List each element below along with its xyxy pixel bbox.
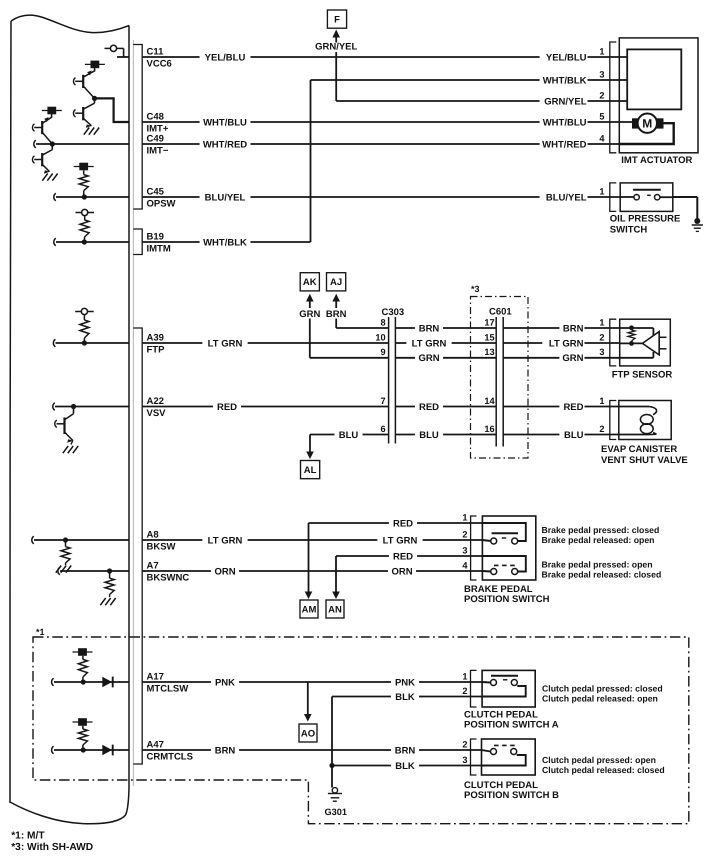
resistor OPSW pull-up (83, 170, 85, 174)
svg-text:EVAP CANISTER: EVAP CANISTER (601, 444, 677, 455)
svg-text:2: 2 (599, 424, 604, 434)
svg-text:1: 1 (599, 46, 604, 56)
svg-text:GRN: GRN (418, 353, 439, 364)
wire label WHT/BLU (right) (540, 116, 588, 128)
arrow up into AJ (332, 294, 340, 302)
svg-text:CRMTCLS: CRMTCLS (147, 752, 193, 763)
junction dot on A39 wire (82, 340, 87, 345)
clutch pedal position switch B box (482, 739, 536, 775)
svg-text:1: 1 (462, 512, 467, 522)
wire label BRN (right) (559, 322, 584, 334)
ground symbol G301 (332, 788, 337, 793)
svg-text:C303: C303 (382, 307, 405, 318)
svg-text:RED: RED (217, 402, 237, 413)
svg-text:AK: AK (303, 277, 317, 288)
wire label ORN (A7 left) (211, 565, 239, 577)
svg-text:Brake pedal released: open: Brake pedal released: open (542, 535, 655, 545)
svg-text:WHT/BLU: WHT/BLU (203, 117, 247, 128)
wire from oil pressure switch to ground (673, 196, 698, 198)
wire label RED (right) (559, 401, 584, 413)
component bracket clutch switch B (471, 739, 477, 775)
wire label YEL/BLU (left) (200, 51, 251, 63)
voltage circle for IMTM pull-up (82, 209, 88, 215)
wire RED C303 to C601 (395, 406, 496, 408)
wire label BRN (right) (391, 744, 419, 756)
hook at left end of A39 wire (53, 339, 55, 347)
transistor Q1a (upper, drives C48 node) (94, 68, 96, 72)
svg-text:BLU: BLU (419, 430, 439, 441)
svg-text:Clutch pedal pressed: open: Clutch pedal pressed: open (542, 755, 656, 765)
transistor Q1b (lower, to ground) (94, 98, 96, 103)
wire label PNK (right) (391, 676, 419, 688)
wire label WHT/BLU (left) (200, 116, 251, 128)
wire GRN from AK to C303 pin 9 (309, 319, 311, 358)
component bracket oil pressure switch (610, 183, 617, 212)
wire label ORN (brake pin4) (388, 565, 416, 577)
svg-text:M: M (642, 117, 652, 131)
wire BRN C601 to FTP sensor pin 1 (503, 327, 620, 329)
wire B19 inside ECM (56, 241, 129, 243)
svg-text:8: 8 (380, 317, 385, 327)
svg-text:AL: AL (304, 465, 317, 476)
svg-text:POSITION SWITCH A: POSITION SWITCH A (464, 720, 559, 731)
svg-text:BRN: BRN (215, 745, 236, 756)
hook at left end of A7 wire (58, 567, 60, 575)
ground symbol for oil pressure switch (692, 224, 703, 226)
resistor BKSWNC pulldown (109, 571, 111, 578)
svg-text:BLU: BLU (564, 430, 584, 441)
svg-text:GRN: GRN (299, 309, 320, 320)
junction dot on A8 wire (63, 537, 68, 542)
svg-text:FTP SENSOR: FTP SENSOR (612, 370, 673, 381)
wire ORN from A7 to brake switch pin 4 (142, 570, 482, 572)
wire A8 inside ECM (34, 539, 129, 541)
hook at left end of A8 wire (32, 536, 34, 544)
svg-text:WHT/RED: WHT/RED (203, 139, 247, 150)
arrow down into AL (309, 435, 311, 452)
svg-text:POSITION SWITCH B: POSITION SWITCH B (464, 790, 559, 801)
junction dot on A47 wire (81, 747, 86, 752)
wire LT GRN from A8 to brake switch pin 2 (142, 539, 482, 541)
svg-text:C45: C45 (147, 186, 165, 197)
hook at left end of C45 wire (54, 193, 56, 201)
svg-text:3: 3 (462, 755, 467, 765)
connector F box (327, 10, 346, 28)
oil pressure switch box (620, 183, 673, 212)
wire WHT/BLU from C48 to IMT actuator pin 5 (142, 121, 632, 123)
wire BRN from A47 to clutch switch B pin 2 (142, 749, 481, 751)
connector strip light guide line (132, 40, 134, 786)
ground wire down to G301 (331, 697, 333, 788)
wire C49 inside ECM (36, 143, 129, 145)
wire RED C601 to EVAP valve pin 1 (503, 406, 619, 408)
svg-text:C48: C48 (147, 111, 164, 122)
wire BLU C601 to EVAP valve pin 2 (503, 434, 619, 436)
wire RED from A22 to C303 pin 7 (142, 406, 388, 408)
svg-text:Clutch pedal released: closed: Clutch pedal released: closed (542, 765, 665, 775)
svg-text:*3: With SH-AWD: *3: With SH-AWD (11, 842, 93, 853)
ground for Q2b (42, 174, 47, 181)
arrow up into connector F (332, 30, 340, 38)
wire LT GRN C303 to C601 (395, 342, 496, 344)
svg-text:VENT SHUT VALVE: VENT SHUT VALVE (601, 455, 688, 466)
hook at left end of C49 wire (34, 140, 36, 148)
svg-text:LT GRN: LT GRN (412, 338, 447, 349)
junction dot on B19 wire (82, 239, 87, 244)
svg-text:ORN: ORN (391, 566, 412, 577)
IMT actuator wire pin4 internal (619, 123, 673, 144)
ground for Q3 (63, 446, 68, 453)
wire YEL/BLU from C11 to IMT actuator pin 1 (142, 56, 627, 58)
wire GRN/YEL from connector F to IMT actuator pin 2 (335, 52, 337, 101)
connector bracket group B (B19) (133, 229, 142, 255)
EVAP valve solenoid coil (619, 406, 649, 408)
clutch switch B contacts (482, 750, 491, 752)
svg-text:CLUTCH PEDAL: CLUTCH PEDAL (464, 780, 538, 791)
svg-text:13: 13 (484, 347, 494, 357)
wire BLK from clutch switch A pin 2 to ground node (332, 696, 482, 698)
svg-text:1: 1 (599, 186, 604, 196)
wire GRN C601 to FTP sensor pin 3 (503, 357, 620, 359)
svg-text:BLU/YEL: BLU/YEL (546, 192, 587, 203)
svg-text:C601: C601 (489, 307, 512, 318)
wire label BLK (clutch B) (391, 760, 419, 772)
wire A39 inside ECM (56, 342, 130, 344)
ground for BKSWNC resistor (100, 598, 105, 605)
wire label PNK (left) (211, 676, 239, 688)
IMT actuator outer box (619, 38, 698, 153)
svg-text:Clutch pedal pressed: closed: Clutch pedal pressed: closed (542, 684, 663, 694)
connector bracket group C (C11-C45) (133, 45, 142, 210)
wire label BLU/YEL (left) (200, 191, 251, 203)
junction dot on A7 wire (107, 568, 112, 573)
svg-text:17: 17 (484, 317, 494, 327)
svg-text:A47: A47 (147, 739, 164, 750)
wire label LT GRN (left) (202, 337, 247, 349)
svg-text:WHT/BLK: WHT/BLK (543, 75, 587, 86)
svg-text:BRN: BRN (395, 745, 416, 756)
power square Q1 pair supply (91, 61, 100, 69)
wire label RED (mid) (415, 401, 443, 413)
voltage source symbol at C11 (VCC6 pull-up) (110, 45, 116, 51)
svg-text:A17: A17 (147, 671, 164, 682)
svg-text:A8: A8 (147, 529, 159, 540)
resistor BKSW pulldown (65, 540, 67, 547)
svg-text:BLK: BLK (395, 761, 415, 772)
diode D1 on A17 wire (102, 677, 112, 687)
svg-text:BRN: BRN (326, 309, 347, 320)
wire label BLU (mid) (415, 429, 443, 441)
wire PNK from A17 to clutch switch A pin 1 (142, 681, 482, 683)
wire GRN C303 to C601 (395, 357, 496, 359)
wire BLU from AL tap to C303 pin 6 (310, 434, 389, 436)
IMT actuator inner frame (627, 49, 681, 109)
wire label BRN (mid) (415, 322, 443, 334)
svg-text:3: 3 (462, 545, 467, 555)
svg-text:*1: *1 (36, 627, 45, 637)
svg-text:LT GRN: LT GRN (208, 338, 243, 349)
component bracket clutch switch A (471, 670, 477, 707)
component bracket IMT actuator (610, 42, 617, 153)
svg-text:VSV: VSV (147, 408, 167, 419)
svg-text:*3: *3 (471, 284, 480, 294)
wire label RED (brake pin3) (389, 550, 417, 562)
hook at left end of B19 wire (54, 238, 56, 246)
ground for Q1b (84, 128, 89, 135)
svg-text:G301: G301 (325, 807, 347, 817)
wire RED to brake switch pin 3 (336, 555, 482, 557)
svg-text:AJ: AJ (330, 277, 342, 288)
svg-text:BRN: BRN (419, 323, 440, 334)
svg-text:2: 2 (462, 529, 467, 539)
svg-text:POSITION SWITCH: POSITION SWITCH (464, 594, 550, 605)
resistor IMTM pull-up (84, 216, 86, 220)
wire WHT/BLK from B19 to IMT actuator pin 3 (142, 241, 310, 243)
transistor Q2a (upper, drives C49 node) (51, 114, 53, 118)
power square for OPSW pull-up (79, 163, 88, 171)
svg-text:MTCLSW: MTCLSW (147, 684, 189, 695)
connector AK box (300, 273, 319, 291)
wire BLK from clutch switch B pin 3 to ground node (332, 765, 482, 767)
junction dot on C45 wire (82, 194, 87, 199)
svg-text:VCC6: VCC6 (147, 59, 172, 70)
svg-text:YEL/BLU: YEL/BLU (546, 52, 587, 63)
motor brush right (656, 118, 663, 128)
ground dot at oil pressure switch (694, 218, 700, 224)
motor brush left (632, 118, 639, 128)
svg-text:2: 2 (462, 686, 467, 696)
svg-text:LT GRN: LT GRN (549, 338, 584, 349)
voltage circle for FTP pull-up (81, 308, 87, 314)
svg-text:1: 1 (599, 396, 604, 406)
svg-text:7: 7 (380, 396, 385, 406)
svg-text:10: 10 (375, 332, 385, 342)
svg-text:A22: A22 (147, 396, 164, 407)
svg-text:Brake pedal pressed: open: Brake pedal pressed: open (542, 560, 653, 570)
wire C11 inside ECM (117, 56, 129, 58)
svg-text:Clutch pedal released: open: Clutch pedal released: open (542, 694, 658, 704)
clutch pedal position switch A box (482, 670, 535, 707)
svg-text:ORN: ORN (214, 566, 235, 577)
svg-text:A39: A39 (147, 332, 164, 343)
connector AN box (326, 600, 344, 618)
svg-text:AO: AO (301, 728, 315, 739)
wire label LT GRN (right) (542, 337, 584, 349)
wire A47 inside ECM (54, 749, 129, 751)
wire label BLU (left) (334, 429, 362, 441)
svg-text:C11: C11 (147, 46, 165, 57)
svg-text:BKSWNC: BKSWNC (147, 573, 190, 584)
wire BLU/YEL from C45 to oil pressure switch (142, 196, 620, 198)
svg-text:IMT−: IMT− (147, 146, 169, 157)
svg-text:2: 2 (462, 739, 467, 749)
connector C303 (388, 317, 390, 444)
wire label GRN (right) (559, 352, 584, 364)
wire RED to brake switch pin 1 (309, 522, 483, 524)
arrow up into AK (306, 294, 314, 302)
connector AJ box (327, 273, 346, 291)
svg-text:1: 1 (462, 671, 467, 681)
svg-text:SWITCH: SWITCH (610, 224, 648, 235)
wire label LT GRN (brake pin2) (377, 534, 422, 546)
wire C45 inside ECM (56, 196, 129, 198)
wire A17 inside ECM (54, 681, 129, 683)
svg-text:*1: M/T: *1: M/T (11, 831, 45, 842)
wire from Q1 node to C48 pin (95, 98, 130, 122)
clutch switch A contacts (482, 681, 490, 684)
hook at left end of A22 wire (53, 403, 55, 411)
wire label YEL/BLU (right) (540, 51, 588, 63)
connector AM box (300, 600, 318, 618)
svg-text:4: 4 (599, 133, 605, 143)
svg-text:FTP: FTP (147, 345, 166, 356)
svg-text:5: 5 (599, 111, 604, 121)
connector bracket group A (A39-A47) (133, 328, 142, 764)
resistor MTCLSW pull-up (82, 656, 84, 660)
svg-text:AM: AM (302, 604, 317, 615)
wire label BLU/YEL (right) (540, 191, 588, 203)
svg-text:RED: RED (563, 402, 583, 413)
connector C601 (495, 317, 497, 447)
wire label RED (brake pin1) (389, 517, 417, 529)
wire label WHT/RED (right) (540, 138, 588, 150)
junction dot BLK wires (329, 763, 334, 768)
wire label BRN (left) (211, 744, 239, 756)
diode D2 on A47 wire (102, 745, 112, 755)
svg-text:PNK: PNK (215, 677, 235, 688)
svg-text:F: F (334, 15, 340, 26)
dash-dot box *3 around C601 (471, 297, 529, 459)
oil pressure switch contacts (620, 196, 634, 198)
wire A7 inside ECM (60, 570, 129, 572)
FTP sensor internal resistor (629, 325, 634, 330)
svg-text:3: 3 (599, 347, 604, 357)
wire label GRN (mid) (415, 352, 443, 364)
svg-text:Brake pedal pressed: closed: Brake pedal pressed: closed (542, 525, 660, 535)
FTP sensor box (620, 319, 671, 366)
node between Q1a and Q1b (to C48) (92, 96, 97, 101)
node between Q2a and Q2b (to C49) (50, 141, 55, 146)
svg-text:GRN: GRN (562, 353, 583, 364)
wire BRN from AJ to C303 pin 8 (335, 319, 337, 329)
brake switch lower contact set (pins 3-4) (482, 556, 525, 572)
wire label BLK (clutch A) (391, 691, 419, 703)
motor M symbol (638, 114, 657, 133)
svg-text:IMT ACTUATOR: IMT ACTUATOR (621, 155, 692, 166)
svg-text:IMTM: IMTM (147, 244, 171, 255)
svg-text:1: 1 (599, 317, 604, 327)
ground for BKSW resistor (56, 566, 61, 573)
svg-text:Brake pedal released: closed: Brake pedal released: closed (542, 570, 662, 580)
EVAP valve box (619, 401, 671, 440)
component bracket EVAP valve (610, 401, 617, 440)
svg-text:3: 3 (599, 69, 604, 79)
svg-text:9: 9 (380, 347, 385, 357)
svg-text:4: 4 (462, 560, 468, 570)
wire label GRN/YEL (right) (540, 95, 588, 107)
svg-text:C49: C49 (147, 133, 164, 144)
ECM/PCM torn-edge band outline (11, 15, 129, 33)
wire LT GRN from A39 to C303 pin 10 (142, 342, 388, 344)
svg-text:LT GRN: LT GRN (208, 535, 243, 546)
power square for MTCLSW pull-up (78, 648, 87, 656)
power square for CRMTCLS pull-up (78, 718, 87, 726)
power square Q2 pair supply (47, 107, 56, 115)
svg-text:LT GRN: LT GRN (383, 535, 418, 546)
junction dot on A17 wire (81, 679, 86, 684)
svg-text:14: 14 (484, 396, 495, 406)
connector AL box (301, 461, 320, 479)
wire label RED (left) (213, 401, 241, 413)
transistor Q3 (VSV driver) (73, 407, 75, 414)
svg-text:BLK: BLK (395, 692, 415, 703)
component bracket brake pedal switch (471, 516, 477, 580)
svg-text:WHT/BLK: WHT/BLK (203, 237, 247, 248)
svg-text:BLU: BLU (339, 430, 359, 441)
transistor Q2b (lower, to ground) (51, 144, 53, 150)
svg-text:RED: RED (393, 518, 413, 529)
brake switch upper contact set (pins 1-2) (482, 523, 525, 541)
svg-text:2: 2 (599, 90, 604, 100)
arrow down into AN (332, 592, 340, 600)
svg-text:WHT/BLU: WHT/BLU (543, 117, 587, 128)
component bracket FTP sensor (610, 319, 617, 366)
wire label BLU (right) (559, 429, 584, 441)
arrow down into AM (305, 592, 313, 600)
wire BLU C303 to C601 (395, 434, 496, 436)
svg-text:6: 6 (380, 424, 385, 434)
svg-text:RED: RED (419, 402, 439, 413)
svg-text:WHT/RED: WHT/RED (542, 139, 586, 150)
arrow down into AO (307, 682, 309, 714)
svg-text:B19: B19 (147, 231, 164, 242)
wire WHT/RED from C49 to IMT actuator pin 4 (142, 143, 619, 145)
connector AO box (299, 724, 317, 742)
junction dot on A22 wire (71, 404, 76, 409)
wire label WHT/BLK (right) (540, 74, 588, 86)
svg-text:2: 2 (599, 332, 604, 342)
hook at left end of A47 wire (52, 746, 54, 754)
svg-text:GRN/YEL: GRN/YEL (544, 96, 586, 107)
svg-text:GRN/YEL: GRN/YEL (315, 41, 357, 52)
svg-text:YEL/BLU: YEL/BLU (205, 52, 246, 63)
wire label WHT/BLK (left) (200, 236, 251, 248)
svg-text:PNK: PNK (395, 677, 415, 688)
svg-text:15: 15 (484, 332, 494, 342)
hook at left end of A17 wire (52, 678, 54, 686)
wire LT GRN C601 to FTP sensor pin 2 (503, 342, 620, 344)
brake pedal position switch box (482, 516, 535, 580)
svg-text:OIL PRESSURE: OIL PRESSURE (610, 214, 681, 225)
dash-dot box *1 (M/T option) (33, 637, 689, 824)
svg-text:RED: RED (393, 551, 413, 562)
FTP sensor amplifier triangle (642, 332, 659, 355)
resistor FTP pull-up (83, 315, 85, 320)
svg-text:A7: A7 (147, 560, 159, 571)
resistor CRMTCLS pull-up (82, 726, 84, 729)
svg-text:AN: AN (328, 604, 342, 615)
wire BRN C303 to C601 (395, 327, 496, 329)
svg-text:OPSW: OPSW (147, 199, 176, 210)
wire A22 inside ECM (55, 406, 129, 408)
wire label LT GRN (A8 left) (202, 534, 247, 546)
svg-text:BRN: BRN (563, 323, 584, 334)
wire label LT GRN (mid) (406, 337, 451, 349)
svg-text:16: 16 (484, 424, 494, 434)
svg-text:BKSW: BKSW (147, 542, 176, 553)
FTP sensor internal wiring (620, 327, 654, 329)
svg-text:BLU/YEL: BLU/YEL (205, 192, 246, 203)
